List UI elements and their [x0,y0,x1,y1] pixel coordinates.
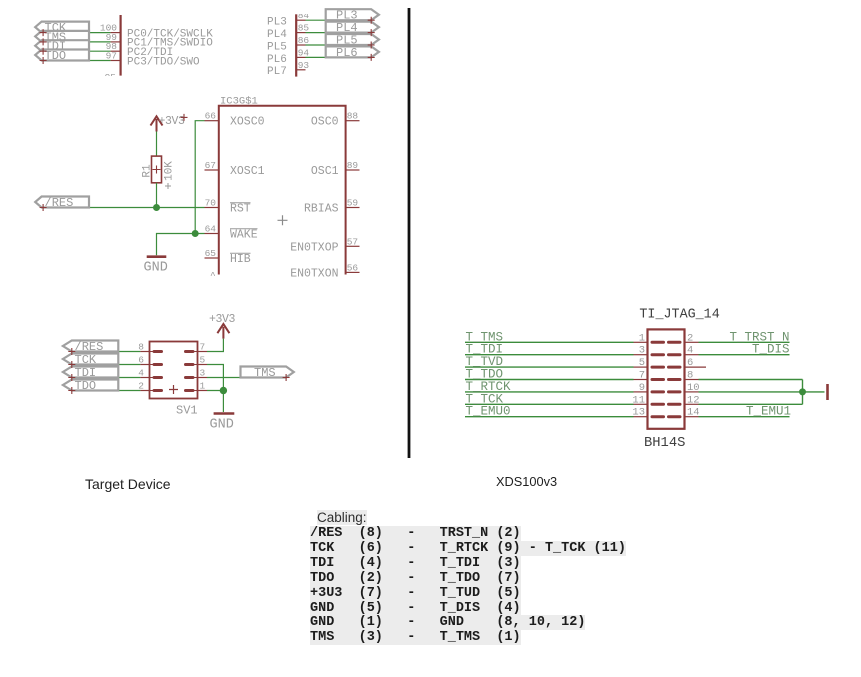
SV1 pin 7 [186,342,206,353]
svg-text:TMS: TMS [254,366,276,380]
pin 57 EN0TXOP [290,236,359,254]
supply +3V3 (SV1) [209,313,236,339]
net flag /RES (IC3) [35,196,89,210]
divider line between target and XDS sections [408,8,411,458]
svg-text:HIB: HIB [230,253,251,266]
junction SV1 GND [220,387,227,394]
svg-text:PL4: PL4 [267,29,287,41]
junction WAKE net [192,230,199,237]
flag origin cross /RES (IC3) [40,204,47,211]
svg-text:OSC0: OSC0 [311,116,339,129]
svg-text:6: 6 [138,355,144,366]
svg-text:66: 66 [205,111,217,122]
SV1 pin 4 [138,368,161,379]
svg-text:PL3: PL3 [267,17,287,29]
wire T_TMS [465,330,634,344]
wire GND vertical tie [802,380,804,405]
wire T_EMU0 [465,405,634,419]
pin 86 [296,35,309,46]
pin 5 [634,357,681,369]
pin 7 [634,370,681,382]
wire TDI net [43,50,111,52]
pin 88 OSC0 [311,111,360,129]
svg-text:EN0TXOP: EN0TXOP [290,241,338,254]
svg-text:2: 2 [687,332,693,344]
svg-text:XOSC0: XOSC0 [230,116,265,129]
SV1 pin 8 [138,342,161,353]
svg-text:EN0TXON: EN0TXON [290,267,338,280]
wire +3V3 to R1 [156,132,158,157]
svg-text:10K: 10K [164,161,176,181]
net flag PL5 [326,33,379,47]
net flag PL3 [326,9,379,23]
svg-text:TCK: TCK [75,353,97,367]
svg-text:56: 56 [347,262,359,273]
net flag TMS (SV1) [241,366,294,380]
svg-text:SV1: SV1 [176,404,198,418]
svg-text:85: 85 [298,23,310,34]
SV1 origin cross [169,385,178,394]
pin 9 [634,382,681,394]
flag origin cross PL4 [368,29,375,36]
flag origin cross TMS [283,374,290,381]
svg-text:1: 1 [200,381,206,392]
wire SV1 pin3 to TMS flag [198,377,208,379]
svg-text:67: 67 [205,160,216,171]
svg-text:93: 93 [298,60,310,71]
wire T_TVD [465,355,634,369]
wire /RES to SV1 pin8 [72,351,141,353]
svg-text:T_DIS: T_DIS [752,343,790,357]
pin 67 XOSC1 [205,160,265,178]
svg-text:5: 5 [639,357,645,369]
svg-text:1: 1 [639,332,645,344]
svg-text:11: 11 [632,394,645,406]
SV1 pin 5 [186,355,206,366]
pin 64 WAKE [205,224,258,242]
svg-text:IC3G$1: IC3G$1 [220,96,258,108]
wire TCK net [43,32,111,34]
svg-text:GND: GND [144,261,168,276]
cabling table [310,527,626,646]
connector SV1 body [150,342,198,399]
pin 4 T_DIS [685,343,790,357]
wire SV1 pin7 to +3V3 [198,351,208,353]
ground GND (IC3) [144,257,168,276]
svg-text:WAKE: WAKE [230,229,258,242]
flag origin cross PL5 [368,42,375,49]
flag origin cross PL6 [368,54,375,61]
svg-text:GND: GND [210,418,234,433]
pin 3 [634,345,681,357]
wire TDO to SV1 pin2 [72,390,141,392]
resistor R1 10K [142,156,176,189]
pin 93 [296,60,309,71]
svg-text:XOSC1: XOSC1 [230,165,265,178]
svg-text:7: 7 [200,342,206,353]
svg-text:7: 7 [639,370,645,382]
pin 89 OSC1 [311,160,360,178]
pin 65 HIB [205,248,251,266]
svg-text:PL7: PL7 [267,66,287,78]
svg-text:64: 64 [205,224,217,235]
pin 84 [296,10,309,21]
wire XOSC0 drop [195,121,204,234]
pin 98 PC2/TDI [106,41,120,52]
junction GND tie [799,388,806,395]
svg-text:PC3/TDO/SWO: PC3/TDO/SWO [127,56,200,68]
IC origin cross [278,215,288,225]
pin 59 RBIAS [304,198,360,216]
svg-text:TDO: TDO [75,379,97,393]
svg-text:88: 88 [347,111,359,122]
svg-text:65: 65 [205,248,217,259]
flag origin cross PL3 [368,17,375,24]
net flag /RES (SV1) [63,340,118,354]
svg-text:+3V3: +3V3 [209,313,236,326]
net flag TCK (SV1) [63,353,118,367]
svg-text:8: 8 [687,370,693,382]
svg-text:2: 2 [138,381,144,392]
svg-text:86: 86 [298,35,310,46]
svg-text:TI_JTAG_14: TI_JTAG_14 [639,308,719,323]
svg-text:5: 5 [200,355,206,366]
wire PL6 net [306,56,372,58]
svg-text:12: 12 [687,394,700,406]
svg-text:9: 9 [639,382,645,394]
wire PL4 net [306,32,372,34]
ground GND (SV1) [210,414,235,433]
svg-text:RST: RST [230,203,251,216]
svg-text:6: 6 [687,357,693,369]
svg-text:57: 57 [347,236,358,247]
net flag TCK [35,21,89,35]
IC3 PL port body edge [295,14,297,76]
SV1 pin 1 [186,381,206,392]
svg-text:3: 3 [639,345,645,357]
svg-text:4: 4 [687,345,693,357]
+3V3 origin cross [181,114,188,121]
cabling heading [317,510,367,525]
svg-text:TDI: TDI [75,366,97,380]
wire PL3 net [306,19,372,21]
wire WAKE to GND [157,234,205,256]
svg-text:T_EMU0: T_EMU0 [466,405,511,419]
svg-text:97: 97 [106,51,117,62]
pin 100 PC0/TCK/SWCLK [100,23,120,34]
svg-text:8: 8 [138,342,144,353]
svg-text:14: 14 [687,407,700,419]
flag origin cross /RES (SV1) [68,348,75,355]
svg-text:89: 89 [347,160,359,171]
flag origin cross TCK (SV1) [68,361,75,368]
wire junction to GND symbol [222,391,224,413]
svg-text:59: 59 [347,198,359,209]
pin 14 T_EMU1 [685,405,792,419]
svg-text:BH14S: BH14S [644,436,685,451]
svg-text:PL6: PL6 [336,46,358,60]
pin 8 GND wire [685,370,803,382]
pin 99 PC1/TMS/SWDIO [106,32,120,43]
pin 10 GND wire [685,382,825,394]
svg-text:OSC1: OSC1 [311,165,339,178]
wire T_TDO [465,368,634,382]
white crop patch over pin 84 number [297,0,315,14]
wire /RES to RST pin [43,207,205,209]
svg-text:3: 3 [200,368,206,379]
connector BH14S body [648,329,685,428]
wire T_TDI [465,343,634,357]
pin 70 RST [205,198,251,216]
flag origin cross TDO (SV1) [68,387,75,394]
svg-text:/RES: /RES [75,340,104,354]
svg-text:R1: R1 [142,164,154,178]
wire T_RTCK [465,380,634,394]
svg-text:^: ^ [210,270,216,281]
wire R1 to RST net [156,183,158,208]
wire TMS net [43,41,111,43]
SV1 pin 6 [138,355,161,366]
wire PL5 net [306,44,372,46]
pin 6 stub [685,357,707,369]
flag origin cross TDO [40,57,47,64]
pin 97 PC3/TDO/SWO [106,51,120,62]
pin 13 [632,407,680,419]
caption Target Device [85,476,171,492]
IC3 port body edge [119,15,121,76]
caption XDS100v3 [496,474,557,489]
wire TDI to SV1 pin4 [72,377,141,379]
net flag PL4 [326,21,379,35]
pin 85 [296,23,309,34]
svg-text:70: 70 [205,198,217,209]
op IC3G$1 body (bottom edge cut off) [219,106,346,275]
SV1 pin 2 [138,381,161,392]
pin 1 [634,332,681,344]
svg-text:TDO: TDO [45,49,67,63]
net flag TDI (SV1) [63,366,118,380]
svg-text:10: 10 [687,382,700,394]
svg-text:T_EMU1: T_EMU1 [746,405,791,419]
svg-text:13: 13 [632,407,645,419]
wire T_TCK [465,392,634,406]
svg-text:PL6: PL6 [267,54,287,66]
flag origin cross TCK [40,29,47,36]
svg-text:4: 4 [138,368,144,379]
net flag PL6 [326,46,379,60]
net flag TDO (SV1) [63,379,118,393]
SV1 pin 3 [186,368,206,379]
wire SV1 pin1 to GND net [198,390,208,392]
pin 2 T_TRST_N [685,330,790,344]
pin 11 [632,394,680,406]
wire SV1 pin5 to GND net [198,364,208,366]
junction RST pull-up [153,204,160,211]
svg-text:94: 94 [298,47,310,58]
svg-text:PL5: PL5 [267,41,287,53]
ground GND (rotated) [826,384,829,400]
pin 66 XOSC0 [205,111,265,129]
flag origin cross TDI (SV1) [68,374,75,381]
supply +3V3 (IC3 pull-up) [151,115,186,132]
wire TCK to SV1 pin6 [72,364,141,366]
flag origin cross TDI [40,48,47,55]
pin 12 GND wire [685,394,803,406]
flag origin cross TMS [40,38,47,45]
net flag TDI [35,40,89,54]
net flag TDO [35,49,89,63]
pin 56 EN0TXON [290,262,359,280]
wire TDO net [43,60,111,62]
svg-text:RBIAS: RBIAS [304,203,339,216]
net flag TMS [35,30,89,44]
pin 94 [296,47,309,58]
svg-text:/RES: /RES [45,196,74,210]
